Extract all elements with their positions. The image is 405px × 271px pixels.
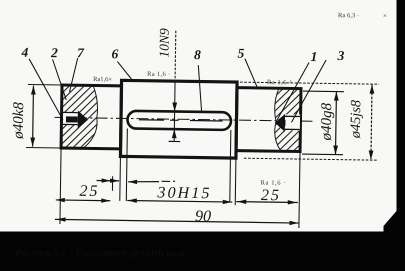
svg-text:2: 2 — [50, 45, 58, 60]
extension line at keyway right x231.5 — [230, 130, 231, 202]
dim Ø40k8 (left) — [28, 83, 62, 86]
svg-text:1: 1 — [310, 49, 317, 64]
dim 90 — [55, 219, 299, 223]
svg-text:Ra 1,6 ·: Ra 1,6 · — [261, 179, 286, 186]
svg-text:Ra1,6×: Ra1,6× — [93, 76, 112, 83]
center hole right: cone — [275, 114, 285, 132]
svg-text:6: 6 — [111, 46, 118, 61]
corner black wedge — [384, 211, 405, 232]
svg-text:3: 3 — [336, 48, 344, 63]
svg-text:10N9: 10N9 — [156, 28, 171, 58]
svg-text:8: 8 — [194, 47, 201, 62]
svg-text:Рисунок 5.1 – Соединение детал: Рисунок 5.1 – Соединение деталей вала — [16, 248, 185, 259]
svg-text:Ra 1,6 ·: Ra 1,6 · — [147, 71, 170, 78]
extension line at shoulder x121.5 — [119, 156, 122, 200]
dim 25 right — [236, 201, 297, 204]
svg-text:ø40k8: ø40k8 — [11, 102, 28, 140]
right black strip — [397, 0, 405, 271]
extension line at keyway left x128 — [126, 128, 127, 200]
small gap dim arrows near keyway start — [97, 180, 119, 182]
svg-text:×: × — [383, 13, 387, 20]
centerline — [55, 117, 315, 121]
dim Ø40g8 (right) — [303, 90, 344, 93]
svg-text:5: 5 — [238, 46, 245, 61]
bottom black band — [0, 232, 405, 271]
left bushing section hatch — [61, 85, 98, 149]
extension line at right face x301 — [299, 152, 300, 228]
svg-text:Ra 6,3 ·: Ra 6,3 · — [338, 12, 359, 19]
extension line at right shoulder x237 — [234, 158, 237, 205]
extension line at left face x62 — [60, 148, 61, 224]
svg-text:30H15: 30H15 — [156, 184, 209, 202]
svg-text:ø45js8: ø45js8 — [348, 100, 365, 139]
center hole left: cone — [78, 111, 88, 129]
svg-text:ø40g8: ø40g8 — [319, 102, 336, 141]
keyway centerline — [139, 119, 164, 121]
dim 25 left — [56, 199, 110, 202]
right bushing outline — [236, 88, 301, 152]
center hole left: bore — [63, 113, 78, 124]
dim 30H15 — [127, 200, 232, 202]
shaft middle section — [120, 80, 237, 158]
svg-text:90: 90 — [195, 208, 211, 225]
svg-text:4: 4 — [20, 45, 28, 60]
center hole right: bore — [285, 114, 300, 130]
right bushing section hatch — [274, 88, 301, 151]
keyway slot — [127, 111, 231, 130]
left bushing outline — [61, 85, 121, 149]
dim Ø45js8 (far right) — [240, 82, 379, 84]
svg-text:Ra 1,6 ^: Ra 1,6 ^ — [267, 79, 292, 86]
